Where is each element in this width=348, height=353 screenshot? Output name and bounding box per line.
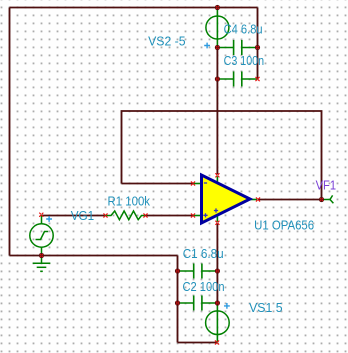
wire inverting input bbox=[122, 183, 194, 185]
junction VS2 bottom / C4 left bbox=[215, 45, 220, 50]
plus marker VG1 bbox=[46, 216, 52, 222]
junction C4 right bbox=[255, 45, 260, 50]
pin mark VS1 negative terminal bbox=[215, 341, 218, 344]
junction C2 right / VS1 top bbox=[215, 300, 220, 305]
svg-text:VG1: VG1 bbox=[71, 209, 95, 223]
pin mark U1 top supply pin bbox=[216, 174, 219, 177]
wire left rail bbox=[9, 8, 11, 256]
wire feedback loop bbox=[122, 111, 322, 200]
wire bottom row bbox=[178, 342, 218, 344]
plus marker VS2 bbox=[204, 43, 210, 49]
VF1 output pin bbox=[324, 195, 334, 203]
capacitor C3 bbox=[217, 72, 257, 87]
pin mark U1 output bbox=[256, 198, 259, 201]
voltage source VG1 bbox=[30, 215, 53, 256]
plus marker VS1 bbox=[224, 303, 230, 309]
junction C1 left bbox=[175, 268, 180, 273]
pin mark R1 right terminal bbox=[144, 214, 147, 217]
op-amp U1 inverting input pin bbox=[193, 183, 201, 185]
junction VG1 bottom / ground bbox=[39, 253, 44, 258]
junction VS2 top / top rail bbox=[215, 5, 220, 10]
wire top rail bbox=[10, 7, 258, 9]
svg-text:U1 OPA656: U1 OPA656 bbox=[254, 218, 314, 232]
svg-text:VF1: VF1 bbox=[316, 178, 337, 192]
wire center supply bottom bbox=[216, 224, 218, 304]
wire center supply top bbox=[216, 48, 218, 175]
op-amp U1 plus mark bbox=[203, 213, 207, 217]
op-amp U1 noninverting input pin bbox=[193, 215, 201, 217]
junction output node VF1 bbox=[319, 197, 324, 202]
voltage source VS1 bbox=[206, 303, 230, 343]
ground bbox=[33, 256, 51, 272]
svg-text:C3 100n: C3 100n bbox=[224, 54, 265, 68]
op-amp U1 top supply pin bbox=[216, 176, 218, 183]
op-amp U1 supply plus mark bbox=[214, 208, 218, 212]
capacitor C1 bbox=[178, 264, 218, 279]
svg-text:VS1 5: VS1 5 bbox=[249, 301, 283, 315]
wire R1 to noninverting input bbox=[146, 215, 194, 217]
pin mark VG1 positive terminal bbox=[40, 213, 43, 216]
svg-text:C1 6.8u: C1 6.8u bbox=[183, 247, 224, 261]
capacitor C2 bbox=[178, 296, 218, 311]
op-amp U1 output pin bbox=[250, 199, 257, 201]
svg-text:R1 100k: R1 100k bbox=[108, 195, 151, 209]
svg-text:C4 6.8u: C4 6.8u bbox=[224, 23, 263, 37]
op-amp bottom pin stub bbox=[216, 217, 218, 222]
svg-text:VS2 -5: VS2 -5 bbox=[148, 34, 186, 48]
pin mark U1 bottom supply pin bbox=[216, 221, 219, 224]
wire right cap branch bbox=[257, 8, 259, 80]
wire VG1 to R1 bbox=[42, 215, 105, 217]
capacitor C4 bbox=[217, 40, 257, 55]
wire output bbox=[258, 199, 322, 201]
junction C1 right bbox=[215, 268, 220, 273]
junction C2 left bbox=[175, 300, 180, 305]
voltage source VS2 bbox=[206, 8, 229, 48]
wire ground row bbox=[10, 255, 178, 257]
pin mark U1 noninverting input bbox=[191, 214, 194, 217]
op-amp U1 minus mark bbox=[204, 182, 207, 184]
pin mark U1 inverting input bbox=[191, 182, 194, 185]
resistor R1 bbox=[105, 211, 146, 220]
pin mark R1 left terminal bbox=[104, 214, 107, 217]
junction C3 left / supply branch bbox=[215, 76, 220, 81]
pin mark C3 right terminal bbox=[256, 77, 259, 80]
svg-text:C2 100n: C2 100n bbox=[183, 280, 225, 294]
wire left branch bbox=[177, 256, 179, 343]
op-amp U1 OPA656 bbox=[202, 175, 251, 223]
